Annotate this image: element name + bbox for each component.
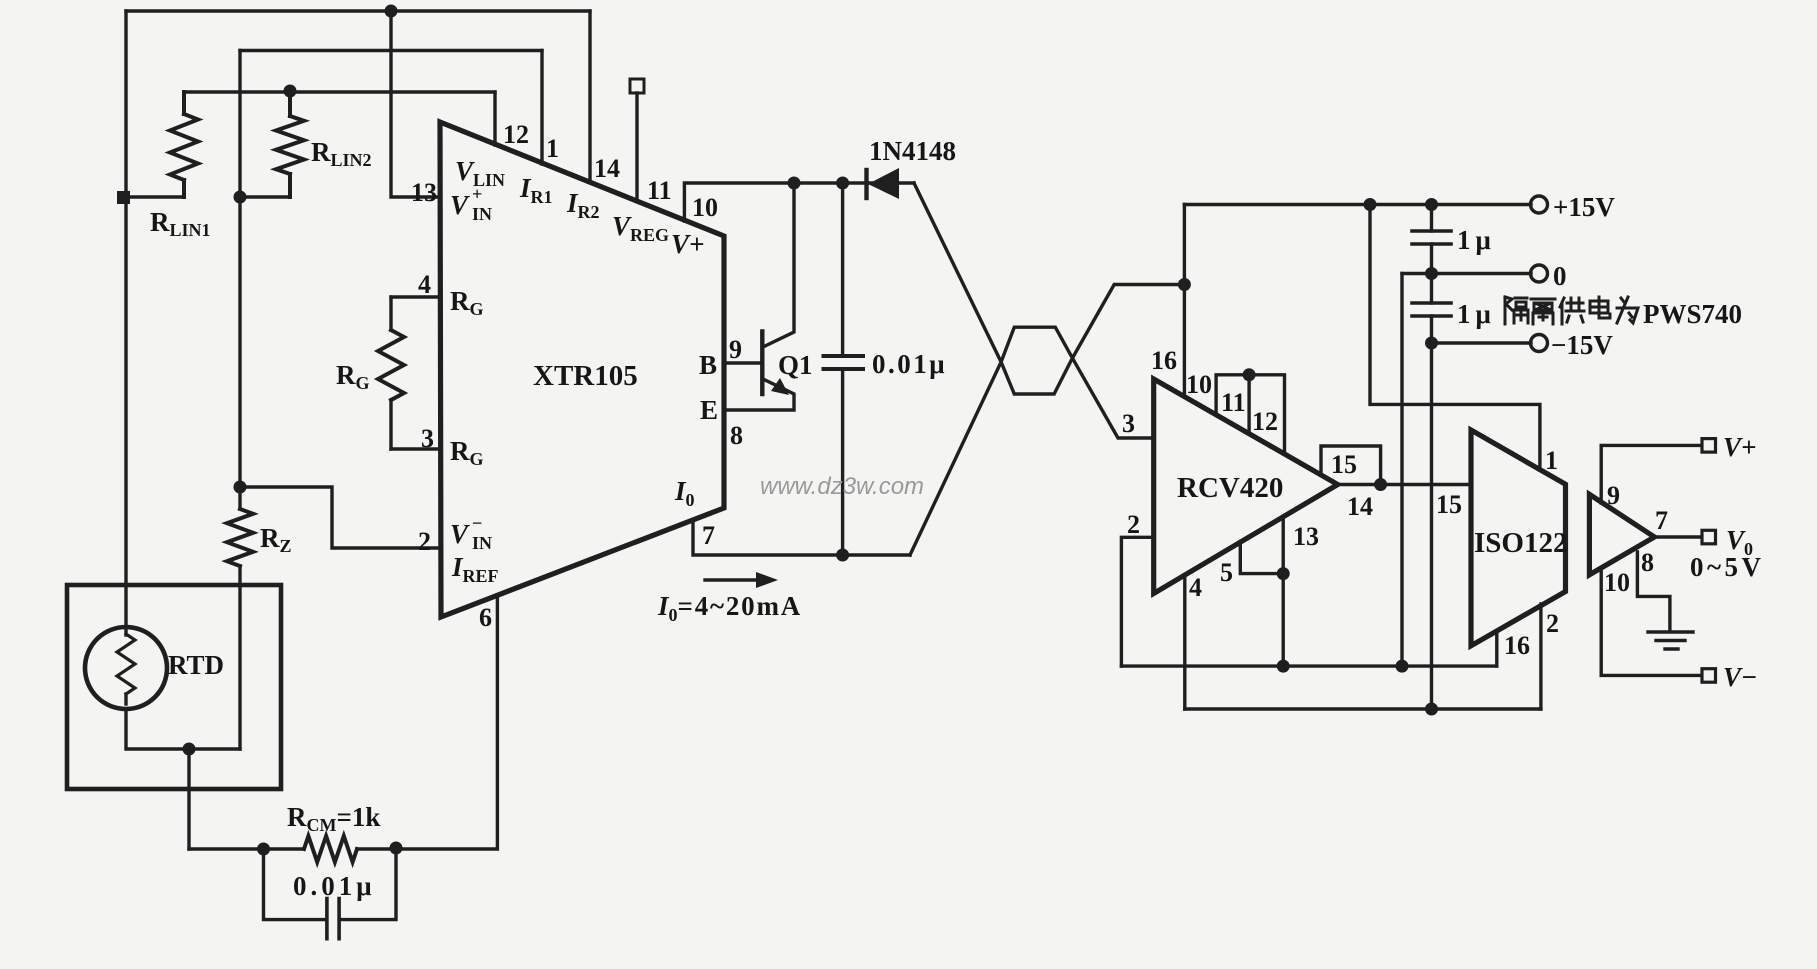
wire R_CM rail left part bbox=[189, 847, 304, 850]
diode D1 1N4148 cathode bar bbox=[864, 170, 868, 198]
terminal V0 bbox=[1702, 530, 1716, 544]
wire RTD bottom to second vertical bbox=[126, 709, 240, 749]
ground symbol bbox=[1648, 632, 1693, 649]
svg-text:9: 9 bbox=[1607, 481, 1620, 510]
terminal 0 bbox=[1531, 265, 1548, 282]
wire from RTD bottom node down to R_CM rail bbox=[187, 749, 190, 849]
node junction pin15 box / output wire bbox=[1374, 478, 1387, 491]
node junction pin5/pin13 bbox=[1277, 567, 1290, 580]
wire pins 10-11-12 strap bbox=[1216, 375, 1284, 454]
resistor R_G bbox=[389, 297, 392, 330]
wire pin8 to ground bbox=[1637, 552, 1670, 631]
RTD sensor circle bbox=[85, 627, 167, 709]
node junction 0 rail / cap bbox=[1425, 267, 1438, 280]
wire second vertical lower part (R_Z into RTD box) bbox=[238, 566, 241, 749]
svg-text:RCV420: RCV420 bbox=[1177, 472, 1283, 504]
wire second rail bbox=[240, 49, 542, 52]
wire top supply rail bbox=[126, 9, 590, 12]
svg-text:14: 14 bbox=[1347, 492, 1373, 521]
wire R_LIN2 bottom to second vertical bbox=[238, 195, 290, 198]
resistor R_CM bbox=[304, 836, 357, 862]
svg-text:14: 14 bbox=[594, 154, 620, 183]
node junction collector / V+ feed bbox=[788, 177, 801, 190]
transistor Q1 base bar bbox=[760, 332, 764, 395]
svg-text:I0=4~20mA: I0=4~20mA bbox=[657, 591, 802, 625]
svg-text:1: 1 bbox=[546, 134, 559, 163]
svg-text:Q1: Q1 bbox=[778, 350, 813, 380]
svg-text:V−: V− bbox=[1723, 662, 1757, 692]
arrow I0 direction bbox=[705, 578, 758, 581]
wire pin14 output to ISO122 pin 15 bbox=[1338, 483, 1471, 486]
node junction R_LIN2 bottom bbox=[234, 191, 247, 204]
svg-text:4: 4 bbox=[418, 270, 431, 299]
capacitor C1 0.01u vertical leads bbox=[841, 183, 844, 354]
wire 0V drop to lower bus bbox=[1400, 274, 1403, 667]
op-amp U4 output buffer body bbox=[1589, 494, 1654, 575]
svg-text:XTR105: XTR105 bbox=[533, 360, 638, 392]
svg-text:V: V bbox=[450, 190, 470, 220]
svg-text:E: E bbox=[700, 395, 718, 425]
svg-text:IN: IN bbox=[472, 204, 492, 224]
svg-text:5: 5 bbox=[1220, 558, 1233, 587]
resistor R_Z bbox=[227, 509, 253, 566]
svg-text:7: 7 bbox=[702, 521, 715, 550]
svg-text:−15V: −15V bbox=[1551, 330, 1613, 360]
node junction pin2 branch on second vertical bbox=[234, 481, 247, 494]
svg-text:11: 11 bbox=[1221, 388, 1246, 417]
svg-text:15: 15 bbox=[1331, 450, 1357, 479]
wire left vertical from top rail down to RTD bbox=[124, 11, 127, 635]
node junction top rail / pin13 drop bbox=[385, 5, 398, 18]
wire pin12 lead down to XTR105 bbox=[493, 92, 496, 145]
svg-text:2: 2 bbox=[1127, 510, 1140, 539]
wire third rail (R_LIN tops to pin 12) bbox=[184, 90, 495, 93]
capacitor C1 plates bbox=[824, 356, 864, 369]
node junction on strap bbox=[1243, 368, 1256, 381]
wire pin4 lead down to bottom bus bbox=[1183, 575, 1186, 709]
svg-text:4: 4 bbox=[1189, 573, 1202, 602]
svg-text:11: 11 bbox=[647, 176, 672, 205]
svg-text:+15V: +15V bbox=[1553, 192, 1615, 222]
svg-text:8: 8 bbox=[1641, 548, 1654, 577]
svg-text:8: 8 bbox=[730, 421, 743, 450]
op-amp U1 XTR105 body bbox=[440, 122, 724, 617]
capacitor 0.01u plates bbox=[327, 899, 339, 939]
svg-text:16: 16 bbox=[1151, 346, 1177, 375]
svg-text:9: 9 bbox=[729, 335, 742, 364]
wire twisted pair upper run (diode to RCV420 +15V node) bbox=[914, 183, 1184, 394]
svg-text:7: 7 bbox=[1655, 506, 1668, 535]
capacitor 1u (top) bbox=[1430, 205, 1433, 232]
wire Q1 base to pin 9 bbox=[724, 361, 762, 364]
svg-text:IN: IN bbox=[472, 533, 492, 553]
wire pin7 output to V0 terminal bbox=[1654, 535, 1701, 538]
terminal V- bbox=[1702, 669, 1716, 683]
wire pin11 lead bbox=[635, 93, 638, 201]
node junction R_LIN2 top bbox=[284, 85, 297, 98]
capacitor 1u (bottom) bbox=[1430, 274, 1433, 304]
wire pin16 lead / +15V rail left drop bbox=[1183, 205, 1186, 397]
svg-text:V: V bbox=[450, 519, 470, 549]
wire ISO pin2 to bottom bus bbox=[1539, 604, 1542, 709]
terminal +15V bbox=[1531, 196, 1548, 213]
svg-text:15: 15 bbox=[1436, 490, 1462, 519]
svg-text:V+: V+ bbox=[1723, 432, 1756, 462]
node junction twisted pair upper on pin16 lead bbox=[1178, 278, 1191, 291]
node junction -15V drop on bottom bus bbox=[1425, 703, 1438, 716]
wire -15V rail bbox=[1432, 341, 1532, 344]
wire pin5 lead bbox=[1240, 542, 1283, 573]
node junction -15V rail / drop bbox=[1425, 337, 1438, 350]
svg-text:1μ: 1μ bbox=[1457, 299, 1496, 329]
terminal V+ bbox=[1702, 439, 1716, 453]
wire pin13 lead down to bus bbox=[1281, 517, 1284, 666]
node junction rail / ISO pin1 feed bbox=[1364, 198, 1377, 211]
terminal square for pin 11 bbox=[630, 79, 644, 93]
wire pin2 branch to XTR105 V_IN- bbox=[240, 487, 440, 548]
node junction cap top bbox=[836, 177, 849, 190]
terminal -15V bbox=[1531, 335, 1548, 352]
svg-text:PWS740: PWS740 bbox=[1643, 299, 1742, 329]
svg-text:−: − bbox=[472, 513, 482, 533]
resistor R_LIN2 bbox=[276, 91, 304, 197]
wire pin3 lead from R_G bbox=[391, 447, 440, 450]
svg-text:0.01μ: 0.01μ bbox=[293, 871, 376, 901]
transistor Q1 emitter with arrow bbox=[724, 379, 794, 410]
transistor Q1 collector bbox=[763, 183, 794, 347]
svg-text:12: 12 bbox=[1252, 407, 1278, 436]
svg-text:16: 16 bbox=[1504, 631, 1530, 660]
node junction pin13 on lower bus bbox=[1277, 660, 1290, 673]
svg-text:1: 1 bbox=[1545, 446, 1558, 475]
wire pin2 lead to lower bus bbox=[1121, 537, 1153, 666]
node junction R_CM right / cap lead bbox=[390, 842, 403, 855]
node junction 0-drop on lower bus bbox=[1396, 660, 1409, 673]
pin 15 box at output bbox=[1321, 446, 1381, 485]
node junction R_CM left / cap lead bbox=[257, 843, 270, 856]
wire pin7 I0 loop bottom bbox=[693, 520, 910, 555]
wire 0V rail bbox=[1402, 272, 1531, 275]
wire R_LIN1 bottom to left vertical bbox=[123, 195, 184, 198]
RTD enclosure box bbox=[67, 585, 281, 789]
wire +15V rail bbox=[1184, 203, 1531, 206]
svg-text:+: + bbox=[472, 184, 482, 204]
svg-text:3: 3 bbox=[1122, 409, 1135, 438]
svg-text:ISO122: ISO122 bbox=[1474, 527, 1567, 559]
svg-text:12: 12 bbox=[503, 120, 529, 149]
svg-text:13: 13 bbox=[1293, 522, 1319, 551]
node junction cap bottom bbox=[836, 549, 849, 562]
svg-text:0.01μ: 0.01μ bbox=[872, 349, 947, 379]
svg-text:10: 10 bbox=[1186, 370, 1212, 399]
node junction rail / bypass cap bbox=[1425, 198, 1438, 211]
resistor R_LIN1 bbox=[170, 92, 198, 197]
svg-text:1N4148: 1N4148 bbox=[869, 136, 956, 166]
svg-text:B: B bbox=[699, 350, 717, 380]
svg-text:10: 10 bbox=[1604, 568, 1630, 597]
wire pin10 to V- terminal bbox=[1601, 568, 1701, 675]
label isolation supply chinese bbox=[1505, 297, 1638, 324]
svg-text:2: 2 bbox=[418, 527, 431, 556]
svg-text:1μ: 1μ bbox=[1457, 225, 1496, 255]
svg-text:13: 13 bbox=[411, 178, 437, 207]
wire pin1 lead down to XTR105 bbox=[540, 51, 543, 165]
node junction RTD bottom / R_CM drop bbox=[183, 743, 196, 756]
wire twisted pair lower run (I0 return to RCV420 pin 3) bbox=[910, 327, 1154, 555]
svg-text:10: 10 bbox=[692, 193, 718, 222]
svg-text:6: 6 bbox=[479, 603, 492, 632]
svg-text:0: 0 bbox=[1553, 261, 1567, 291]
wire pin13 lead from top rail node bbox=[391, 11, 440, 197]
wire ISO pin1 to +15V bbox=[1370, 205, 1540, 471]
diode D1 1N4148 triangle bbox=[868, 168, 899, 199]
svg-text:V+: V+ bbox=[671, 229, 704, 259]
wire R_CM rail right part up to XTR105 pin 6 bbox=[357, 595, 497, 849]
op-amp U3 ISO122 body bbox=[1471, 430, 1566, 646]
op-amp U2 RCV420 body bbox=[1154, 379, 1338, 594]
node square junction on left vertical bbox=[117, 191, 130, 204]
wire pin9 to V+ terminal bbox=[1601, 445, 1701, 503]
svg-text:RTD: RTD bbox=[168, 650, 224, 680]
RTD internal resistor zigzag bbox=[117, 634, 135, 694]
wire lower bus (RCV pin2 to ISO pin16) bbox=[1121, 664, 1496, 667]
wire second vertical upper part (rail2 down to R_Z) bbox=[238, 51, 241, 510]
wire pin4 lead to R_G bbox=[391, 295, 440, 298]
wire V+ top feed (pin10 to diode) bbox=[684, 183, 914, 221]
svg-text:www.dz3w.com: www.dz3w.com bbox=[760, 473, 924, 500]
wire pin14 lead from top rail down to XTR105 bbox=[588, 11, 591, 182]
wire ISO pin16 to lower bus bbox=[1495, 631, 1498, 666]
svg-text:0~5V: 0~5V bbox=[1690, 552, 1765, 582]
capacitor 0.01u (below R_CM) leads bbox=[264, 849, 326, 920]
svg-text:2: 2 bbox=[1546, 609, 1559, 638]
wire bottom bus (RCV pin4 to ISO pin2) bbox=[1185, 707, 1541, 710]
